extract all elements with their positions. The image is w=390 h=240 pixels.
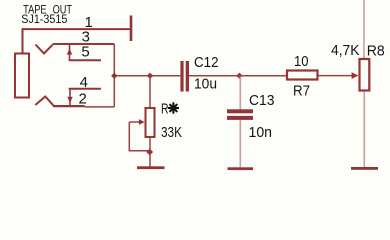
- wire R8 top feed: [363, 0, 365, 58]
- svg-text:SJ1-3515: SJ1-3515: [21, 12, 67, 26]
- svg-text:4,7K: 4,7K: [331, 42, 360, 59]
- pin 4 stub: [69, 88, 101, 90]
- pin 1 bar terminator: [130, 16, 133, 42]
- capacitor C12 left plate: [180, 61, 183, 92]
- capacitor C12 right plate: [186, 61, 189, 92]
- pin 4 switch arrowhead: [67, 97, 72, 103]
- capacitor C13 top plate: [227, 109, 253, 113]
- ground under R8: [351, 167, 378, 170]
- pin 5 switch arrowhead: [67, 48, 72, 54]
- wire node C to R7: [240, 75, 287, 77]
- wire R8 to ground: [363, 92, 365, 168]
- junction dot C: [236, 73, 242, 79]
- resistor R8 body: [360, 59, 370, 91]
- arrowhead into R8: [352, 72, 359, 79]
- pot wiper return wire: [129, 122, 148, 151]
- junction dot D (pot bottom): [146, 149, 153, 156]
- wire pin2 to riser: [85, 106, 115, 108]
- ground under C13: [228, 167, 254, 170]
- connector J1 jack body (sleeve): [15, 54, 29, 98]
- svg-text:R: R: [161, 101, 169, 118]
- svg-text:2: 2: [79, 91, 87, 108]
- pin 4 switch shaft: [69, 89, 71, 106]
- ring contact chevron (pin 2): [35, 97, 53, 106]
- junction dot A: [111, 73, 117, 79]
- svg-text:10u: 10u: [194, 76, 217, 93]
- svg-text:C12: C12: [194, 54, 219, 71]
- resistor R7 body: [287, 71, 318, 80]
- svg-text:10n: 10n: [249, 124, 273, 141]
- wire node B to pot: [149, 76, 151, 107]
- wire node to C12: [114, 75, 180, 77]
- ground under pot: [137, 166, 165, 169]
- pot wiper arrow shaft: [129, 121, 140, 123]
- svg-text:5: 5: [81, 43, 89, 60]
- pot bottom wire: [149, 137, 151, 167]
- wire C13 to ground: [239, 120, 241, 167]
- pin 3 wire: [53, 43, 115, 45]
- svg-text:R7: R7: [293, 82, 310, 99]
- wire node C to C13: [239, 77, 241, 110]
- junction dot B (pot tap): [147, 73, 153, 79]
- wire C12 to node C: [189, 75, 240, 77]
- svg-text:C13: C13: [249, 92, 275, 109]
- star glyph of R*: [168, 102, 179, 113]
- tip contact chevron (pin 3): [36, 45, 53, 54]
- svg-text:4: 4: [80, 74, 88, 91]
- pin 2 stub: [53, 105, 85, 107]
- pin 5 stub: [69, 59, 101, 61]
- svg-text:10: 10: [294, 53, 309, 70]
- pin 5 switch shaft: [69, 45, 71, 60]
- pin 1 lead from sleeve top: [23, 29, 130, 52]
- potentiometer R* body: [146, 108, 155, 137]
- svg-text:R8: R8: [367, 42, 385, 59]
- pot wiper arrowhead: [139, 119, 145, 125]
- wire riser to node: [113, 44, 115, 107]
- capacitor C13 bottom plate: [227, 116, 253, 120]
- svg-text:33K: 33K: [161, 124, 182, 141]
- wire R7 to R8: [319, 75, 354, 77]
